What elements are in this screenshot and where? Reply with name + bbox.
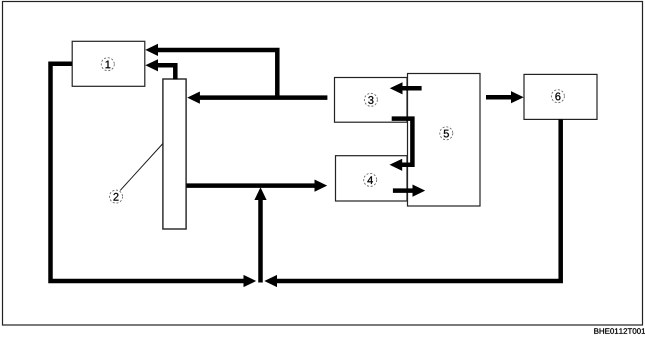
wire: arrow from box 4 into box 5 [393,185,425,197]
figure code label [594,328,645,334]
wire: horizontal line with left arrow into box 2 right side [187,92,327,104]
wire: left loop from box 1 down to bottom center (right arrow) [51,64,257,287]
box 2 tall rectangle [163,79,186,229]
wire: arrow from box 5 into box 3 [390,82,422,94]
wire: horizontal arrow from box 2 toward box 4 [187,180,328,192]
node 3 [364,93,377,106]
wire: right loop from box 6 down to bottom center (left arrow) [264,119,560,287]
wire: short line from box 2 top into box 1 (lower arrow) [145,59,175,79]
node 1 [101,58,114,71]
box 4 [336,156,408,201]
wire: center vertical up arrow [254,187,266,282]
box 6 [524,74,597,119]
node 6 [551,90,564,103]
box 3 [335,78,408,123]
pointer line for label 2 [120,144,163,191]
wire: bracket connector from box 3 bottom into box 4 (left arrow) [390,119,413,171]
box 1 [72,41,145,86]
node 5 [440,127,453,140]
node 4 [364,173,377,186]
wire: arrow from box 5 into box 6 [486,91,524,103]
wire: top feedback line into box 1 (upper arrow) [145,44,277,99]
node 2 [110,190,123,203]
box 5 [408,74,481,207]
